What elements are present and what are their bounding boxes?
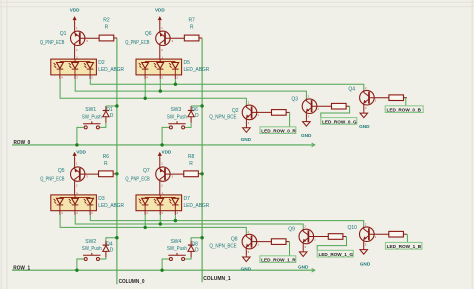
RGB LED D3 (LED_ABGR) xyxy=(51,195,97,215)
wire SW1 right pin to D1 anode xyxy=(100,123,106,128)
wire LED row1 green xyxy=(75,214,303,229)
wire Q5 collector to D3 xyxy=(74,182,76,195)
wire VDD to Q1 emitter xyxy=(74,22,76,30)
RGB LED D7 (LED_ABGR) xyxy=(136,195,182,215)
svg-text:Q_PNP_ECB: Q_PNP_ECB xyxy=(125,177,150,183)
svg-text:SW1: SW1 xyxy=(85,107,96,113)
wire Q7 base to R8 xyxy=(165,173,184,175)
RGB LED D2 (LED_ABGR) xyxy=(51,59,97,79)
transistor Q9 (Q_NPN_BCE) xyxy=(299,229,328,244)
svg-text:LED_ABGR: LED_ABGR xyxy=(98,67,124,73)
wire SW2 right pin to D4 anode xyxy=(100,257,106,259)
wire Q6 base to R7 xyxy=(165,37,184,39)
diode D4 xyxy=(103,241,109,258)
ground symbol GND xyxy=(299,250,307,256)
junction row0 red xyxy=(144,97,147,100)
resistor R8 xyxy=(184,171,199,177)
wire net ROW_1 xyxy=(12,269,315,271)
svg-text:Q4: Q4 xyxy=(348,86,355,92)
junction row0 green xyxy=(159,89,162,92)
ground symbol GND xyxy=(243,255,251,261)
power symbol VDD (Q7) xyxy=(158,153,161,156)
diode D6 xyxy=(188,106,194,123)
svg-text:Q8: Q8 xyxy=(231,237,238,243)
wire COLUMN_1 vertical xyxy=(201,38,203,282)
switch SW4 (SW_Push) xyxy=(168,253,185,261)
wire SW1 left pin to ROW_0 xyxy=(77,127,84,144)
svg-text:VDD: VDD xyxy=(76,149,86,154)
resistor base Q2 xyxy=(272,110,287,116)
svg-text:R: R xyxy=(105,25,109,31)
svg-text:SW_Push: SW_Push xyxy=(82,114,102,120)
svg-text:SW_Push: SW_Push xyxy=(167,246,187,252)
wire D8 cathode to column xyxy=(191,238,202,241)
svg-text:D6: D6 xyxy=(192,107,199,113)
svg-text:Q2: Q2 xyxy=(232,108,239,114)
svg-text:D1: D1 xyxy=(106,107,113,113)
junction SW3 row xyxy=(160,143,163,146)
wire VDD to Q6 emitter xyxy=(159,22,161,30)
junction D4 column xyxy=(115,236,118,239)
svg-text:GND: GND xyxy=(241,137,252,142)
wire SW4 left pin to ROW_1 xyxy=(162,259,169,270)
svg-text:R8: R8 xyxy=(188,154,195,160)
transistor Q2 (Q_NPN_BCE) xyxy=(242,105,271,120)
junction SW4 row xyxy=(160,269,163,272)
wire SW3 left pin to ROW_0 xyxy=(162,127,169,144)
wire Q1 base to R2 xyxy=(80,37,99,39)
svg-text:VDD: VDD xyxy=(155,8,165,13)
power symbol VDD (Q5) xyxy=(73,153,76,156)
svg-text:SW2: SW2 xyxy=(85,239,96,245)
svg-text:Q9: Q9 xyxy=(288,227,295,233)
wire R7 to column xyxy=(199,37,202,39)
junction R6 column xyxy=(115,172,118,175)
wire D6 cathode to column xyxy=(191,105,202,107)
svg-text:D8: D8 xyxy=(192,241,199,247)
svg-text:D7: D7 xyxy=(184,196,191,202)
transistor Q3 (Q_NPN_BCE) xyxy=(302,99,331,114)
svg-text:Q_PNP_ECB: Q_PNP_ECB xyxy=(40,40,65,46)
junction row1 green xyxy=(159,222,162,225)
wire Q4 emitter to ground xyxy=(363,105,365,111)
junction row1 red xyxy=(144,226,147,229)
wire D7 blue drop xyxy=(174,214,176,220)
wire Q1 collector to D2 xyxy=(74,46,76,59)
svg-text:Q3: Q3 xyxy=(291,96,298,102)
wire D5 red drop xyxy=(144,79,146,98)
junction row1 blue xyxy=(174,219,177,222)
wire Q3 resistor to global label xyxy=(346,105,349,107)
wire Q10 resistor to global label xyxy=(403,233,406,235)
ground symbol GND xyxy=(360,248,368,254)
wire Q4 resistor to global label xyxy=(404,97,407,99)
svg-text:VDD: VDD xyxy=(162,149,172,154)
wire R6 to column xyxy=(114,173,117,175)
wire D7 green drop xyxy=(159,214,161,224)
svg-text:SW4: SW4 xyxy=(170,239,181,245)
wire R8 to column xyxy=(199,173,202,175)
svg-text:LED_ABGR: LED_ABGR xyxy=(184,67,210,73)
svg-text:LED_ROW_0_G: LED_ROW_0_G xyxy=(322,119,357,124)
global label LED_ROW_0_R xyxy=(260,127,296,134)
transistor Q1 (Q_PNP_ECB) xyxy=(71,31,85,46)
svg-text:GND: GND xyxy=(301,133,312,138)
transistor Q10 (Q_NPN_BCE) xyxy=(360,227,389,242)
svg-text:LED_ROW_0_R: LED_ROW_0_R xyxy=(261,129,296,134)
svg-text:Q10: Q10 xyxy=(347,225,357,231)
wire VDD to Q7 emitter xyxy=(159,158,161,166)
wire Q8 resistor to global label xyxy=(286,241,289,243)
svg-text:SW_Push: SW_Push xyxy=(167,114,187,120)
resistor base Q8 xyxy=(271,239,286,245)
wire SW3 right pin to D6 anode xyxy=(185,123,191,128)
transistor Q7 (Q_PNP_ECB) xyxy=(156,167,170,182)
wire Q5 base to R6 xyxy=(80,173,99,175)
power symbol VDD (Q1) xyxy=(73,17,76,20)
switch SW1 (SW_Push) xyxy=(83,121,100,129)
svg-text:SW_Push: SW_Push xyxy=(82,246,102,252)
svg-text:SW3: SW3 xyxy=(170,107,181,113)
wire Q10 emitter to ground xyxy=(363,242,365,248)
svg-text:R6: R6 xyxy=(103,154,110,160)
transistor Q4 (Q_NPN_BCE) xyxy=(360,90,389,105)
wire D1 cathode to column xyxy=(106,105,117,107)
svg-text:D4: D4 xyxy=(106,241,113,247)
svg-text:GND: GND xyxy=(360,262,371,267)
global label LED_ROW_1_B xyxy=(385,242,422,249)
wire D7 red drop xyxy=(144,214,146,227)
switch SW2 (SW_Push) xyxy=(83,253,100,261)
svg-text:COLUMN_1: COLUMN_1 xyxy=(203,276,231,282)
svg-text:VDD: VDD xyxy=(70,8,80,13)
wire Q9 emitter to ground xyxy=(302,244,304,250)
wire Q3 emitter to ground xyxy=(305,114,307,120)
svg-text:D: D xyxy=(110,248,114,254)
junction D8 column xyxy=(200,236,203,239)
ground symbol GND xyxy=(243,126,251,132)
svg-text:Q6: Q6 xyxy=(145,31,152,37)
wire D5 green drop xyxy=(159,79,161,91)
svg-text:LED_ABGR: LED_ABGR xyxy=(98,203,124,209)
wire Q2 emitter to ground xyxy=(245,120,247,126)
wire VDD to Q5 emitter xyxy=(74,158,76,166)
global label LED_ROW_1_R xyxy=(260,256,296,263)
svg-text:D5: D5 xyxy=(184,60,191,66)
wire D4 cathode to column xyxy=(106,238,117,241)
svg-text:ROW_0: ROW_0 xyxy=(14,140,31,146)
wire LED row0 blue xyxy=(90,79,364,91)
global label LED_ROW_0_B xyxy=(385,106,423,113)
resistor R2 xyxy=(99,35,114,41)
wire Q2 resistor to global label xyxy=(286,111,289,113)
junction R8 column xyxy=(200,172,203,175)
svg-text:R2: R2 xyxy=(103,18,110,24)
svg-text:D: D xyxy=(110,113,114,119)
svg-text:Q1: Q1 xyxy=(60,31,67,37)
wire D5 blue drop xyxy=(174,79,176,84)
transistor Q8 (Q_NPN_BCE) xyxy=(242,234,271,249)
resistor base Q9 xyxy=(328,234,343,240)
svg-text:D3: D3 xyxy=(98,196,105,202)
diode D1 xyxy=(103,106,109,123)
wire R2 to column xyxy=(114,37,117,39)
svg-text:LED_ROW_1_R: LED_ROW_1_R xyxy=(261,258,296,263)
wire SW2 left pin to ROW_1 xyxy=(77,259,84,270)
diode D8 xyxy=(188,241,194,258)
wire net ROW_0 xyxy=(12,144,315,146)
wire Q7 collector to D7 xyxy=(159,182,161,195)
svg-text:Q_NPN_BCE: Q_NPN_BCE xyxy=(209,244,237,250)
junction D6 column xyxy=(200,104,203,107)
junction row0 blue xyxy=(174,83,177,86)
svg-text:R: R xyxy=(189,161,193,167)
svg-text:LED_ROW_1_B: LED_ROW_1_B xyxy=(387,244,422,249)
svg-text:LED_ROW_1_G: LED_ROW_1_G xyxy=(319,252,354,257)
transistor Q5 (Q_PNP_ECB) xyxy=(71,167,85,182)
svg-text:Q_PNP_ECB: Q_PNP_ECB xyxy=(40,177,65,183)
svg-text:LED_ROW_0_B: LED_ROW_0_B xyxy=(387,108,422,113)
svg-text:Q7: Q7 xyxy=(143,168,150,174)
junction SW2 row xyxy=(75,269,78,272)
junction SW1 row xyxy=(75,143,78,146)
wire LED row1 blue xyxy=(90,214,363,227)
svg-text:D: D xyxy=(195,113,199,119)
switch SW3 (SW_Push) xyxy=(168,121,185,129)
wire Q8 emitter to ground xyxy=(245,249,247,255)
power symbol VDD (Q6) xyxy=(158,17,161,20)
svg-text:Q5: Q5 xyxy=(58,168,65,174)
svg-text:Q_PNP_ECB: Q_PNP_ECB xyxy=(125,40,150,46)
resistor R7 xyxy=(184,35,199,41)
svg-text:GND: GND xyxy=(241,266,252,271)
svg-text:GND: GND xyxy=(298,265,309,270)
svg-text:D: D xyxy=(195,248,199,254)
svg-text:ROW_1: ROW_1 xyxy=(13,265,30,271)
resistor base Q10 xyxy=(389,231,404,237)
svg-text:R: R xyxy=(190,25,194,31)
ground symbol GND xyxy=(303,120,311,126)
svg-text:R: R xyxy=(104,161,108,167)
wire Q9 resistor to global label xyxy=(343,236,346,238)
wire LED row0 red xyxy=(60,79,246,105)
resistor R6 xyxy=(99,171,114,177)
wire LED row1 red xyxy=(60,214,246,234)
svg-text:D2: D2 xyxy=(98,60,105,66)
wire COLUMN_0 vertical xyxy=(116,38,118,284)
junction D1 column xyxy=(115,104,118,107)
wire LED row0 green xyxy=(75,79,306,99)
RGB LED D5 (LED_ABGR) xyxy=(136,59,182,79)
svg-text:Q_NPN_BCE: Q_NPN_BCE xyxy=(209,115,237,121)
resistor base Q4 xyxy=(389,95,404,101)
global label LED_ROW_1_G xyxy=(317,250,353,257)
wire SW4 right pin to D8 anode xyxy=(185,257,191,259)
svg-text:LED_ABGR: LED_ABGR xyxy=(184,203,210,209)
transistor Q6 (Q_PNP_ECB) xyxy=(156,31,170,46)
svg-text:GND: GND xyxy=(359,124,370,129)
wire Q6 collector to D5 xyxy=(159,46,161,59)
svg-text:R7: R7 xyxy=(188,18,195,24)
ground symbol GND xyxy=(360,111,368,117)
global label LED_ROW_0_G xyxy=(321,118,357,125)
svg-text:COLUMN_0: COLUMN_0 xyxy=(119,279,145,285)
resistor base Q3 xyxy=(332,103,347,109)
